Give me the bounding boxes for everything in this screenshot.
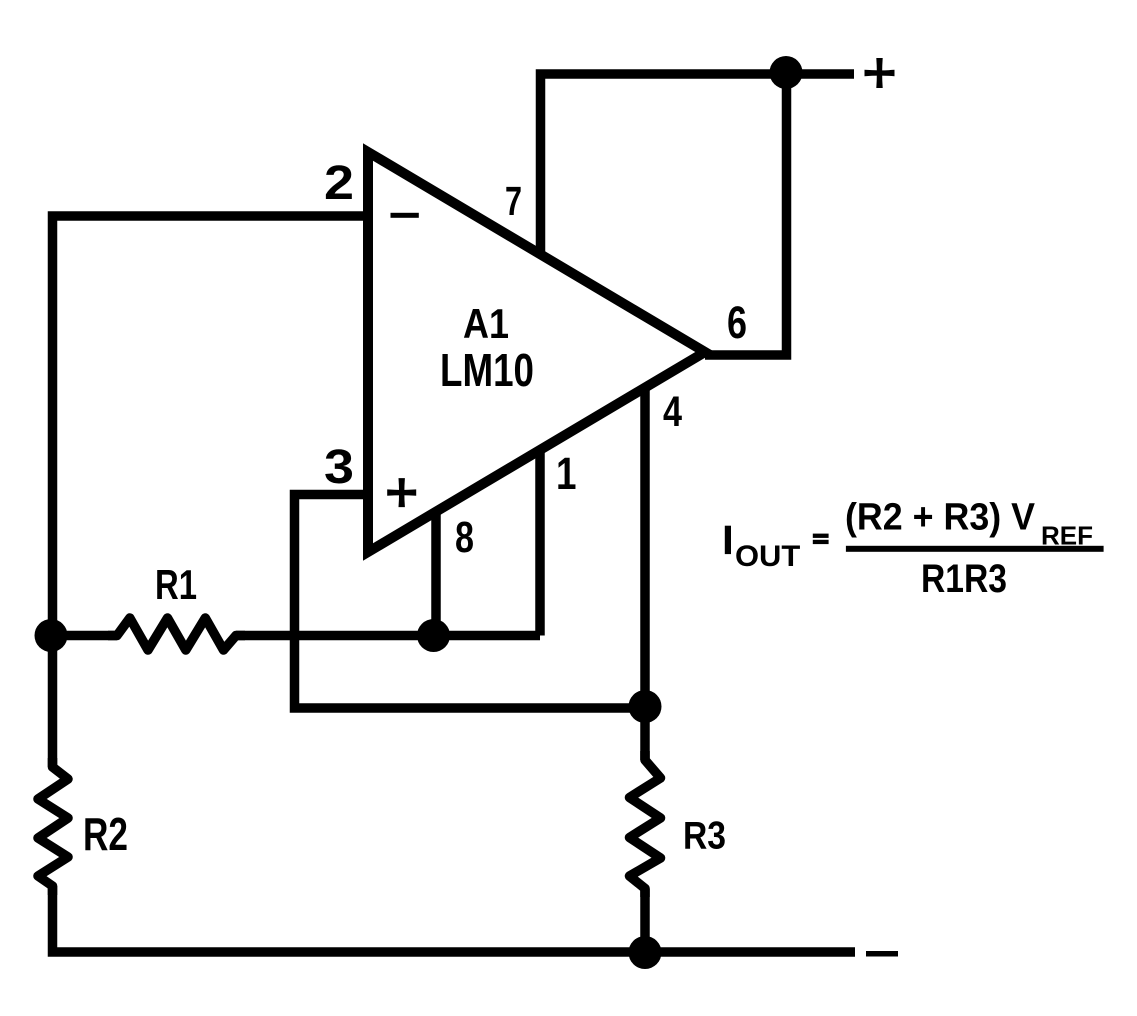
svg-text:(R2 + R3) V: (R2 + R3) V xyxy=(845,497,1036,539)
wire pin7 to V+ rail (top) xyxy=(541,74,855,253)
svg-text:4: 4 xyxy=(663,388,682,436)
wire pin8 down xyxy=(431,512,441,636)
junction dot pin4/R3 node xyxy=(629,690,662,723)
wire pin1 down xyxy=(535,450,545,636)
resistor R1 body xyxy=(108,618,245,650)
wire pin4 down to node xyxy=(640,390,650,708)
formula I symbol xyxy=(725,526,731,554)
wire pin2 left, down left side, R2 lead, bottom rail xyxy=(53,216,856,952)
svg-text:R3: R3 xyxy=(683,815,726,858)
svg-text:LM10: LM10 xyxy=(440,344,534,396)
resistor R2 body xyxy=(38,758,68,895)
op-amp A1 triangle xyxy=(368,152,705,552)
svg-text:R1: R1 xyxy=(155,561,197,608)
V+ terminal plus symbol xyxy=(865,58,895,88)
junction dot R1/R2 left node xyxy=(35,619,68,652)
junction dot R3 bottom rail xyxy=(629,936,662,969)
svg-text:6: 6 xyxy=(727,297,747,348)
svg-text:OUT: OUT xyxy=(735,540,800,573)
formula fraction bar xyxy=(846,546,1104,552)
wire node to R3 and R3 to bottom rail xyxy=(640,708,650,952)
formula equals sign xyxy=(813,534,829,545)
svg-text:A1: A1 xyxy=(463,300,509,347)
op-amp inverting input minus sign xyxy=(391,213,419,218)
svg-text:2: 2 xyxy=(324,157,354,210)
svg-text:1: 1 xyxy=(556,448,577,499)
V- terminal minus symbol xyxy=(866,951,898,957)
svg-text:R2: R2 xyxy=(83,808,128,860)
svg-text:7: 7 xyxy=(505,178,522,224)
wire pin3 left, down and across to R3 top node xyxy=(295,495,646,709)
junction dot top rail xyxy=(770,56,803,89)
resistor R3 body xyxy=(630,751,661,897)
wire output pin6 up to V+ rail xyxy=(705,74,787,355)
wire R1 feedback rail xyxy=(53,631,541,641)
svg-text:3: 3 xyxy=(324,441,354,494)
op-amp non-inverting input plus sign xyxy=(387,478,416,507)
svg-text:8: 8 xyxy=(455,513,474,562)
svg-text:R1R3: R1R3 xyxy=(921,557,1007,601)
junction dot pin8/pin1 node xyxy=(417,619,450,652)
